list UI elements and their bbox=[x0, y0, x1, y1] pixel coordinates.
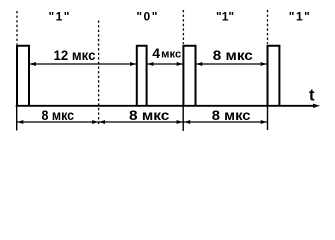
svg-text:8 мкс: 8 мкс bbox=[129, 107, 170, 123]
svg-text:8 мкс: 8 мкс bbox=[213, 47, 253, 63]
svg-text:"1": "1" bbox=[216, 10, 234, 24]
svg-text:12 мкс: 12 мкс bbox=[54, 47, 96, 63]
svg-text:8 мкс: 8 мкс bbox=[42, 107, 75, 123]
svg-text:8 мкс: 8 мкс bbox=[212, 107, 251, 123]
svg-text:4: 4 bbox=[152, 45, 160, 61]
svg-text:"0": "0" bbox=[136, 10, 157, 24]
svg-text:t: t bbox=[309, 86, 315, 104]
svg-text:мкс: мкс bbox=[161, 49, 181, 61]
svg-text:"1": "1" bbox=[49, 10, 70, 24]
svg-text:"1": "1" bbox=[289, 10, 310, 24]
